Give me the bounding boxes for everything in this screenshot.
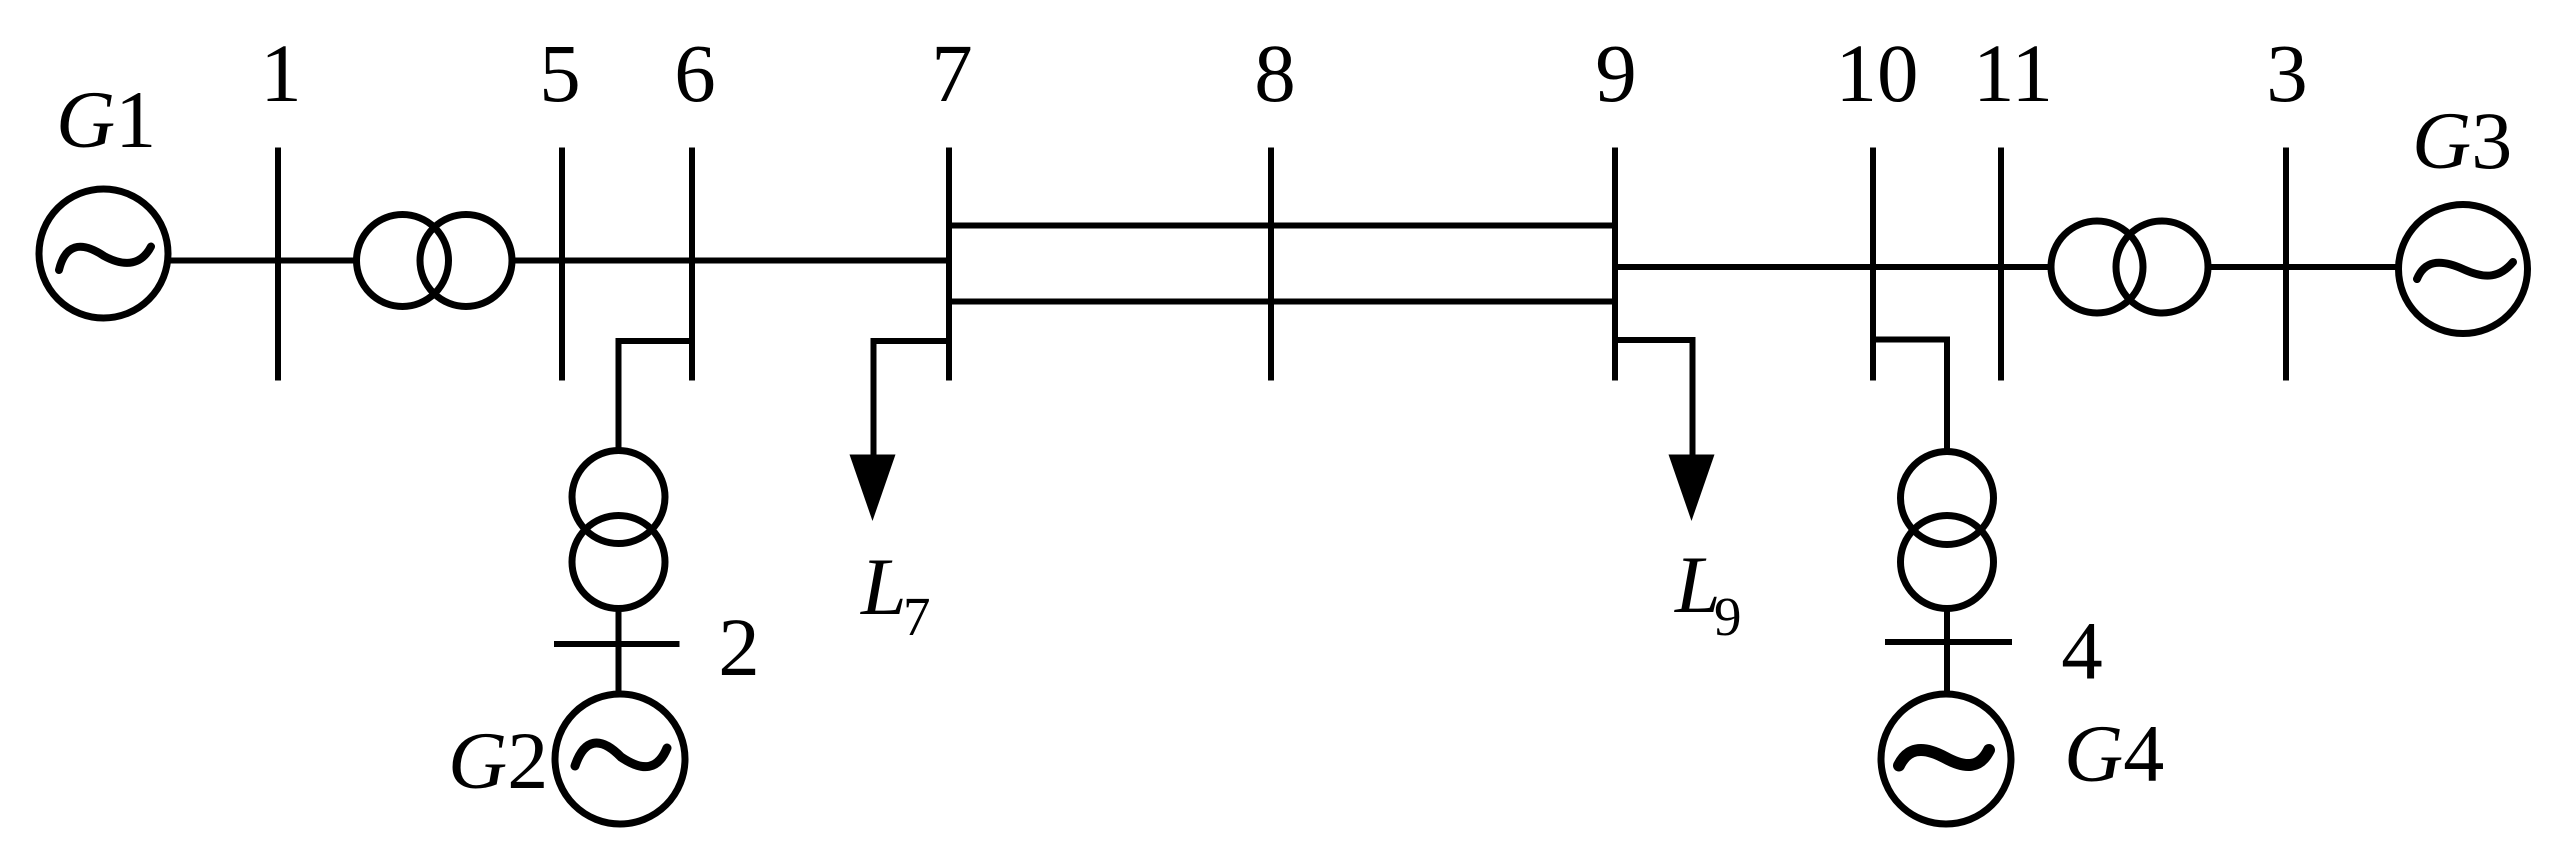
load L7 arrowhead: [850, 455, 896, 522]
generator G2 sine wave: [575, 743, 667, 767]
svg-text:1: 1: [260, 27, 302, 119]
svg-text:L: L: [860, 541, 907, 632]
generator G3 sine wave: [2417, 262, 2513, 279]
wire G1 to transformer T1: [169, 258, 355, 264]
label load L9: [1674, 539, 1742, 647]
svg-text:10: 10: [1836, 27, 1919, 119]
bus 11: [1998, 148, 2004, 381]
transformer T4: [1901, 452, 1994, 609]
wire load L9 branch: [1615, 340, 1693, 465]
svg-text:5: 5: [539, 27, 581, 119]
svg-text:8: 8: [1254, 27, 1296, 119]
bus 1: [275, 148, 281, 381]
svg-text:G4: G4: [2064, 708, 2164, 799]
wire bus 9 to transformer T3: [1615, 264, 2049, 270]
svg-text:9: 9: [1595, 27, 1637, 119]
wire transmission line 7-8-9 lower circuit: [949, 299, 1615, 305]
bus 10: [1870, 148, 1876, 381]
transformer T3: [2051, 221, 2208, 313]
wire bus 6 branch to T2: [619, 341, 693, 449]
svg-text:7: 7: [903, 586, 931, 647]
svg-text:9: 9: [1714, 586, 1742, 647]
wire load L7 branch: [874, 341, 950, 465]
generator G4 circle: [1881, 694, 2011, 824]
svg-text:3: 3: [2266, 27, 2308, 119]
bus 8: [1268, 148, 1274, 381]
transformer T2: [572, 451, 665, 609]
transformer T1: [357, 215, 513, 307]
wire T1 to bus 7: [514, 258, 949, 264]
bus 3: [2283, 148, 2289, 381]
svg-text:6: 6: [674, 27, 716, 119]
wire transmission line 7-8-9 upper circuit: [949, 223, 1615, 229]
bus 7: [946, 148, 952, 381]
wire T2 to generator G2: [616, 609, 622, 694]
svg-text:11: 11: [1973, 27, 2053, 119]
svg-text:G1: G1: [56, 74, 156, 165]
bus 9: [1612, 148, 1618, 381]
generator G3 circle: [2399, 205, 2528, 334]
bus 4 bar: [1885, 639, 2012, 645]
svg-text:G3: G3: [2412, 95, 2512, 186]
svg-text:2: 2: [718, 601, 760, 693]
wire bus 10 branch to T4: [1873, 340, 1947, 451]
generator G2 circle: [555, 694, 685, 824]
svg-text:4: 4: [2061, 605, 2103, 697]
generator G1 circle: [39, 189, 168, 318]
wire T4 to generator G4: [1944, 609, 1950, 694]
wire T3 to G3: [2210, 264, 2396, 270]
generator G1 sine wave: [59, 247, 151, 271]
svg-text:7: 7: [931, 27, 973, 119]
label load L7: [860, 541, 931, 647]
bus 6: [689, 148, 695, 381]
load L9 arrowhead: [1669, 455, 1715, 522]
bus 5: [559, 148, 565, 381]
generator G4 sine wave: [1899, 750, 1989, 766]
svg-text:G2: G2: [448, 715, 548, 806]
bus 2 bar: [554, 641, 680, 647]
